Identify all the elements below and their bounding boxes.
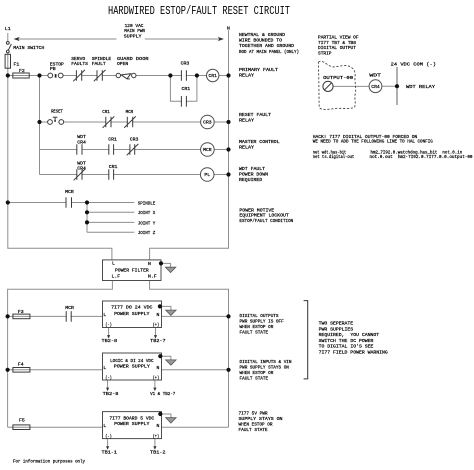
svg-text:CR1: CR1 bbox=[102, 109, 110, 115]
svg-text:CR4: CR4 bbox=[77, 139, 86, 145]
svg-text:F4: F4 bbox=[18, 362, 24, 368]
svg-text:FAULT STATE: FAULT STATE bbox=[240, 376, 269, 382]
svg-text:RESET FAULT: RESET FAULT bbox=[239, 112, 271, 118]
svg-text:F3: F3 bbox=[18, 309, 24, 315]
svg-text:7I77 BOARD 5 VDC: 7I77 BOARD 5 VDC bbox=[109, 415, 154, 421]
svg-text:EQUIPMENT LOCKOUT: EQUIPMENT LOCKOUT bbox=[239, 213, 289, 219]
svg-text:DIGITAL OUTPUTS: DIGITAL OUTPUTS bbox=[240, 313, 279, 319]
svg-text:TWO SEPERATE: TWO SEPERATE bbox=[319, 321, 354, 327]
svg-text:POWER MOTIVE: POWER MOTIVE bbox=[239, 207, 274, 213]
svg-text:FAULT: FAULT bbox=[92, 61, 106, 67]
svg-text:L.F: L.F bbox=[112, 273, 121, 279]
svg-text:FAULT STATE: FAULT STATE bbox=[239, 427, 268, 433]
svg-text:WDT: WDT bbox=[77, 160, 86, 166]
svg-text:SUPPLY STAYS ON: SUPPLY STAYS ON bbox=[239, 416, 283, 422]
svg-text:POWER FILTER: POWER FILTER bbox=[115, 267, 149, 273]
svg-text:TB2-8: TB2-8 bbox=[103, 391, 119, 397]
svg-text:MCR: MCR bbox=[65, 305, 74, 311]
svg-text:SWITCH THE DC POWER: SWITCH THE DC POWER bbox=[319, 338, 374, 344]
svg-text:POWER SUPPLY: POWER SUPPLY bbox=[114, 363, 150, 369]
svg-text:TOGETHER AND GROUND: TOGETHER AND GROUND bbox=[239, 43, 294, 49]
svg-text:POWER DOWN: POWER DOWN bbox=[239, 171, 268, 177]
svg-text:WDT: WDT bbox=[369, 73, 381, 79]
svg-text:MASTER CONTROL: MASTER CONTROL bbox=[239, 139, 280, 145]
svg-text:POWER SUPPLY: POWER SUPPLY bbox=[114, 311, 150, 317]
svg-text:WE NEED TO ADD THE FOLLOWING L: WE NEED TO ADD THE FOLLOWING LINE TO HAL… bbox=[313, 138, 433, 144]
svg-text:(-): (-) bbox=[105, 434, 112, 440]
svg-text:F5: F5 bbox=[19, 418, 25, 424]
svg-text:SPINDLE: SPINDLE bbox=[138, 200, 156, 206]
svg-text:SERVO: SERVO bbox=[71, 56, 85, 62]
svg-text:(-): (-) bbox=[105, 375, 112, 381]
svg-text:JOINT Z: JOINT Z bbox=[138, 230, 156, 236]
svg-text:WHEN ESTOP OR: WHEN ESTOP OR bbox=[240, 370, 274, 376]
svg-text:TB1-1: TB1-1 bbox=[102, 450, 118, 456]
svg-text:ESTOP/FAULT CONDITION: ESTOP/FAULT CONDITION bbox=[239, 218, 293, 224]
svg-text:(+): (+) bbox=[153, 375, 160, 381]
svg-text:MAIN PWR: MAIN PWR bbox=[124, 28, 145, 34]
svg-text:CR4: CR4 bbox=[77, 166, 86, 172]
svg-text:ROD AT MAIN PANEL (ONLY): ROD AT MAIN PANEL (ONLY) bbox=[239, 49, 299, 55]
svg-text:F2: F2 bbox=[19, 68, 25, 74]
svg-text:L: L bbox=[103, 312, 106, 318]
svg-text:N: N bbox=[157, 365, 160, 371]
svg-text:PB: PB bbox=[50, 66, 56, 72]
svg-text:PWR SUPPLY STAYS ON: PWR SUPPLY STAYS ON bbox=[240, 365, 290, 371]
svg-text:V1 & TB2-7: V1 & TB2-7 bbox=[150, 391, 175, 397]
svg-text:net ts.digital-out: net ts.digital-out bbox=[313, 154, 355, 160]
svg-text:F1: F1 bbox=[14, 62, 20, 68]
svg-text:WHEN ESTOP OR: WHEN ESTOP OR bbox=[240, 324, 274, 330]
svg-text:FAULTS: FAULTS bbox=[71, 61, 88, 67]
svg-text:not.0.out hm2-7I92.0.7I77.0.0: not.0.out hm2-7I92.0.7I77.0.0.output-00 bbox=[370, 154, 473, 160]
svg-text:120 VAC: 120 VAC bbox=[125, 23, 144, 29]
svg-text:L1: L1 bbox=[5, 26, 11, 32]
svg-text:PWR SUPPLY IS OFF: PWR SUPPLY IS OFF bbox=[240, 318, 284, 324]
svg-text:CR1: CR1 bbox=[208, 73, 217, 79]
svg-text:N: N bbox=[227, 26, 230, 32]
svg-text:24 VDC COM (-): 24 VDC COM (-) bbox=[391, 62, 437, 68]
svg-text:(+): (+) bbox=[153, 322, 160, 328]
svg-text:MCR: MCR bbox=[126, 109, 134, 115]
svg-text:DIGITAL INPUTS & VIN: DIGITAL INPUTS & VIN bbox=[240, 359, 292, 365]
svg-text:PRIMARY FAULT: PRIMARY FAULT bbox=[239, 67, 278, 73]
svg-text:CR1: CR1 bbox=[109, 164, 118, 170]
svg-text:7I77 TB7 & TB8: 7I77 TB7 & TB8 bbox=[318, 40, 356, 46]
svg-text:N: N bbox=[157, 312, 160, 318]
svg-text:LOGIC & DI 24 VDC: LOGIC & DI 24 VDC bbox=[110, 358, 154, 364]
svg-text:L: L bbox=[103, 423, 106, 429]
svg-text:WDT FAULT: WDT FAULT bbox=[239, 166, 265, 172]
svg-text:CR1: CR1 bbox=[108, 137, 117, 143]
svg-text:NEWTRAL & GROUND: NEWTRAL & GROUND bbox=[239, 32, 285, 38]
svg-text:CR4: CR4 bbox=[371, 84, 380, 90]
svg-text:WDT RELAY: WDT RELAY bbox=[406, 84, 435, 90]
svg-text:FAULT STATE: FAULT STATE bbox=[240, 329, 269, 335]
svg-text:7I77 FIELD POWER WARNING: 7I77 FIELD POWER WARNING bbox=[319, 349, 388, 355]
svg-text:N: N bbox=[157, 423, 160, 429]
svg-text:RELAY: RELAY bbox=[239, 145, 254, 151]
svg-text:For information purposes only: For information purposes only bbox=[13, 458, 85, 464]
svg-text:(-): (-) bbox=[105, 322, 112, 328]
svg-text:L: L bbox=[112, 260, 115, 266]
svg-text:TO DIGITAL IO'S SEE: TO DIGITAL IO'S SEE bbox=[319, 344, 374, 350]
svg-text:L: L bbox=[103, 365, 106, 371]
svg-text:MCR: MCR bbox=[65, 189, 74, 195]
svg-text:MAIN SWITCH: MAIN SWITCH bbox=[13, 45, 44, 51]
svg-text:TB1-2: TB1-2 bbox=[150, 450, 166, 456]
svg-text:RELAY: RELAY bbox=[239, 72, 254, 78]
svg-text:JOINT Y: JOINT Y bbox=[138, 220, 156, 226]
svg-text:TB2-7: TB2-7 bbox=[150, 338, 166, 344]
svg-text:PWR SUPPLIES: PWR SUPPLIES bbox=[319, 326, 354, 332]
svg-text:PARTIAL VIEW OF: PARTIAL VIEW OF bbox=[318, 35, 359, 41]
svg-text:GUARD DOOR: GUARD DOOR bbox=[117, 56, 149, 62]
svg-text:DIGITAL OUTPUT: DIGITAL OUTPUT bbox=[318, 45, 356, 51]
svg-text:OUTPUT-00: OUTPUT-00 bbox=[323, 75, 353, 81]
svg-text:RESET: RESET bbox=[51, 108, 63, 114]
svg-text:SUPPLY: SUPPLY bbox=[124, 34, 142, 40]
svg-text:7I77 5V PWR: 7I77 5V PWR bbox=[239, 411, 268, 417]
svg-text:STRIP: STRIP bbox=[318, 50, 332, 56]
svg-text:TB2-8: TB2-8 bbox=[102, 338, 118, 344]
svg-text:POWER SUPPLY: POWER SUPPLY bbox=[114, 421, 149, 427]
svg-text:MCR: MCR bbox=[203, 147, 212, 153]
svg-text:JOINT X: JOINT X bbox=[138, 210, 156, 216]
svg-text:(+): (+) bbox=[153, 434, 160, 440]
svg-text:N: N bbox=[148, 261, 151, 267]
svg-text:7I77 DO 24 VDC: 7I77 DO 24 VDC bbox=[111, 305, 153, 311]
svg-text:WIRE BOUNDED TO: WIRE BOUNDED TO bbox=[239, 38, 282, 44]
svg-text:REQUIRED, YOU CANNOT: REQUIRED, YOU CANNOT bbox=[319, 332, 380, 338]
svg-text:HARDWIRED ESTOP/FAULT RESET CI: HARDWIRED ESTOP/FAULT RESET CIRCUIT bbox=[108, 4, 290, 18]
svg-text:WDT: WDT bbox=[77, 134, 86, 140]
svg-text:CR3: CR3 bbox=[181, 61, 190, 67]
svg-text:CR3: CR3 bbox=[130, 137, 139, 143]
svg-text:N.F: N.F bbox=[148, 273, 157, 279]
svg-text:CR1: CR1 bbox=[182, 86, 191, 92]
svg-text:CR3: CR3 bbox=[203, 120, 212, 126]
svg-text:OPEN: OPEN bbox=[117, 61, 128, 67]
svg-text:REQUIRED: REQUIRED bbox=[239, 177, 262, 183]
svg-text:PL: PL bbox=[204, 172, 210, 178]
svg-text:WHEN ESTOP OR: WHEN ESTOP OR bbox=[239, 422, 273, 428]
svg-text:RELAY: RELAY bbox=[239, 117, 254, 123]
svg-text:SPINDLE: SPINDLE bbox=[92, 56, 112, 62]
